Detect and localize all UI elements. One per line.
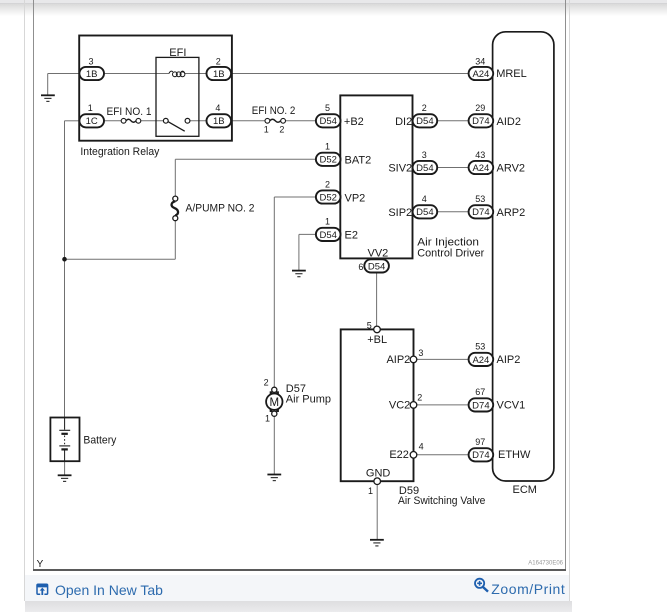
svg-text:A/PUMP NO. 2: A/PUMP NO. 2 [186, 203, 255, 215]
svg-text:1B: 1B [213, 116, 225, 127]
svg-text:SIV2: SIV2 [388, 162, 412, 174]
svg-text:A24: A24 [472, 163, 489, 174]
svg-text:VV2: VV2 [368, 247, 389, 259]
svg-text:A164730E06: A164730E06 [528, 560, 563, 566]
svg-text:1C: 1C [86, 116, 98, 127]
svg-text:EFI NO. 2: EFI NO. 2 [252, 105, 295, 117]
svg-text:AID2: AID2 [497, 116, 521, 128]
svg-text:+BL: +BL [367, 334, 387, 346]
svg-text:5: 5 [325, 103, 330, 113]
svg-text:1: 1 [264, 125, 269, 135]
svg-text:VCV1: VCV1 [497, 399, 526, 411]
svg-text:D74: D74 [472, 116, 489, 127]
svg-text:1B: 1B [86, 69, 98, 80]
svg-text:M: M [270, 397, 280, 409]
svg-text:5: 5 [367, 320, 372, 330]
svg-text:+B2: +B2 [344, 116, 364, 128]
svg-text:2: 2 [325, 179, 330, 189]
svg-text:53: 53 [475, 194, 485, 204]
svg-text:ARP2: ARP2 [497, 207, 526, 219]
svg-text:4: 4 [419, 442, 424, 452]
svg-text:4: 4 [215, 103, 220, 113]
svg-text:D54: D54 [416, 163, 433, 174]
svg-text:2: 2 [264, 378, 269, 388]
svg-text:A24: A24 [472, 69, 489, 80]
svg-text:3: 3 [88, 56, 93, 66]
svg-text:D74: D74 [472, 450, 489, 461]
svg-text:DI2: DI2 [395, 116, 412, 128]
svg-text:3: 3 [418, 348, 423, 358]
svg-text:Battery: Battery [83, 435, 116, 447]
svg-text:67: 67 [475, 387, 485, 397]
svg-text:2: 2 [279, 125, 284, 135]
svg-text:Y: Y [37, 559, 44, 570]
svg-text:E22: E22 [389, 449, 409, 461]
svg-text:VP2: VP2 [345, 192, 366, 204]
svg-text:29: 29 [475, 103, 485, 113]
svg-text:VC2: VC2 [389, 399, 410, 411]
svg-text:43: 43 [475, 150, 485, 160]
svg-text:D52: D52 [319, 155, 336, 166]
svg-text:1: 1 [265, 413, 270, 423]
svg-text:D74: D74 [472, 400, 489, 411]
svg-text:ARV2: ARV2 [497, 162, 526, 174]
svg-text:ECM: ECM [513, 484, 537, 496]
svg-text:Air Pump: Air Pump [286, 394, 331, 406]
svg-text:Control Driver: Control Driver [417, 248, 484, 260]
svg-text:D52: D52 [319, 192, 336, 203]
svg-text:D54: D54 [368, 261, 385, 272]
svg-text:GND: GND [366, 467, 391, 479]
svg-text:34: 34 [475, 56, 485, 66]
svg-text:6: 6 [358, 262, 363, 272]
svg-text:2: 2 [422, 103, 427, 113]
svg-text:ETHW: ETHW [498, 449, 531, 461]
svg-text:4: 4 [422, 194, 427, 204]
svg-text:Air Injection: Air Injection [417, 236, 479, 248]
svg-text:2: 2 [417, 393, 422, 403]
svg-text:Integration Relay: Integration Relay [80, 146, 159, 158]
svg-text:AIP2: AIP2 [497, 354, 521, 366]
svg-text:3: 3 [422, 150, 427, 160]
svg-text:D54: D54 [319, 230, 336, 241]
svg-text:1B: 1B [213, 69, 225, 80]
svg-text:1: 1 [88, 103, 93, 113]
svg-text:D74: D74 [472, 207, 489, 218]
svg-text:EFI NO. 1: EFI NO. 1 [107, 106, 152, 118]
svg-text:1: 1 [325, 142, 330, 152]
svg-text:Air Switching Valve: Air Switching Valve [398, 495, 485, 507]
svg-text:MREL: MREL [496, 68, 527, 80]
svg-text:53: 53 [475, 342, 485, 352]
svg-text:97: 97 [475, 437, 485, 447]
svg-text:SIP2: SIP2 [388, 207, 412, 219]
svg-text:E2: E2 [345, 230, 358, 242]
svg-text:D54: D54 [319, 116, 336, 127]
svg-text:BAT2: BAT2 [345, 155, 372, 167]
svg-text:EFI: EFI [169, 47, 186, 59]
svg-text:2: 2 [216, 56, 221, 66]
svg-text:AIP2: AIP2 [386, 354, 410, 366]
svg-text:D54: D54 [416, 116, 433, 127]
svg-text:1: 1 [368, 486, 373, 496]
svg-text:A24: A24 [472, 355, 489, 366]
svg-text:D54: D54 [416, 207, 433, 218]
svg-text:1: 1 [325, 217, 330, 227]
